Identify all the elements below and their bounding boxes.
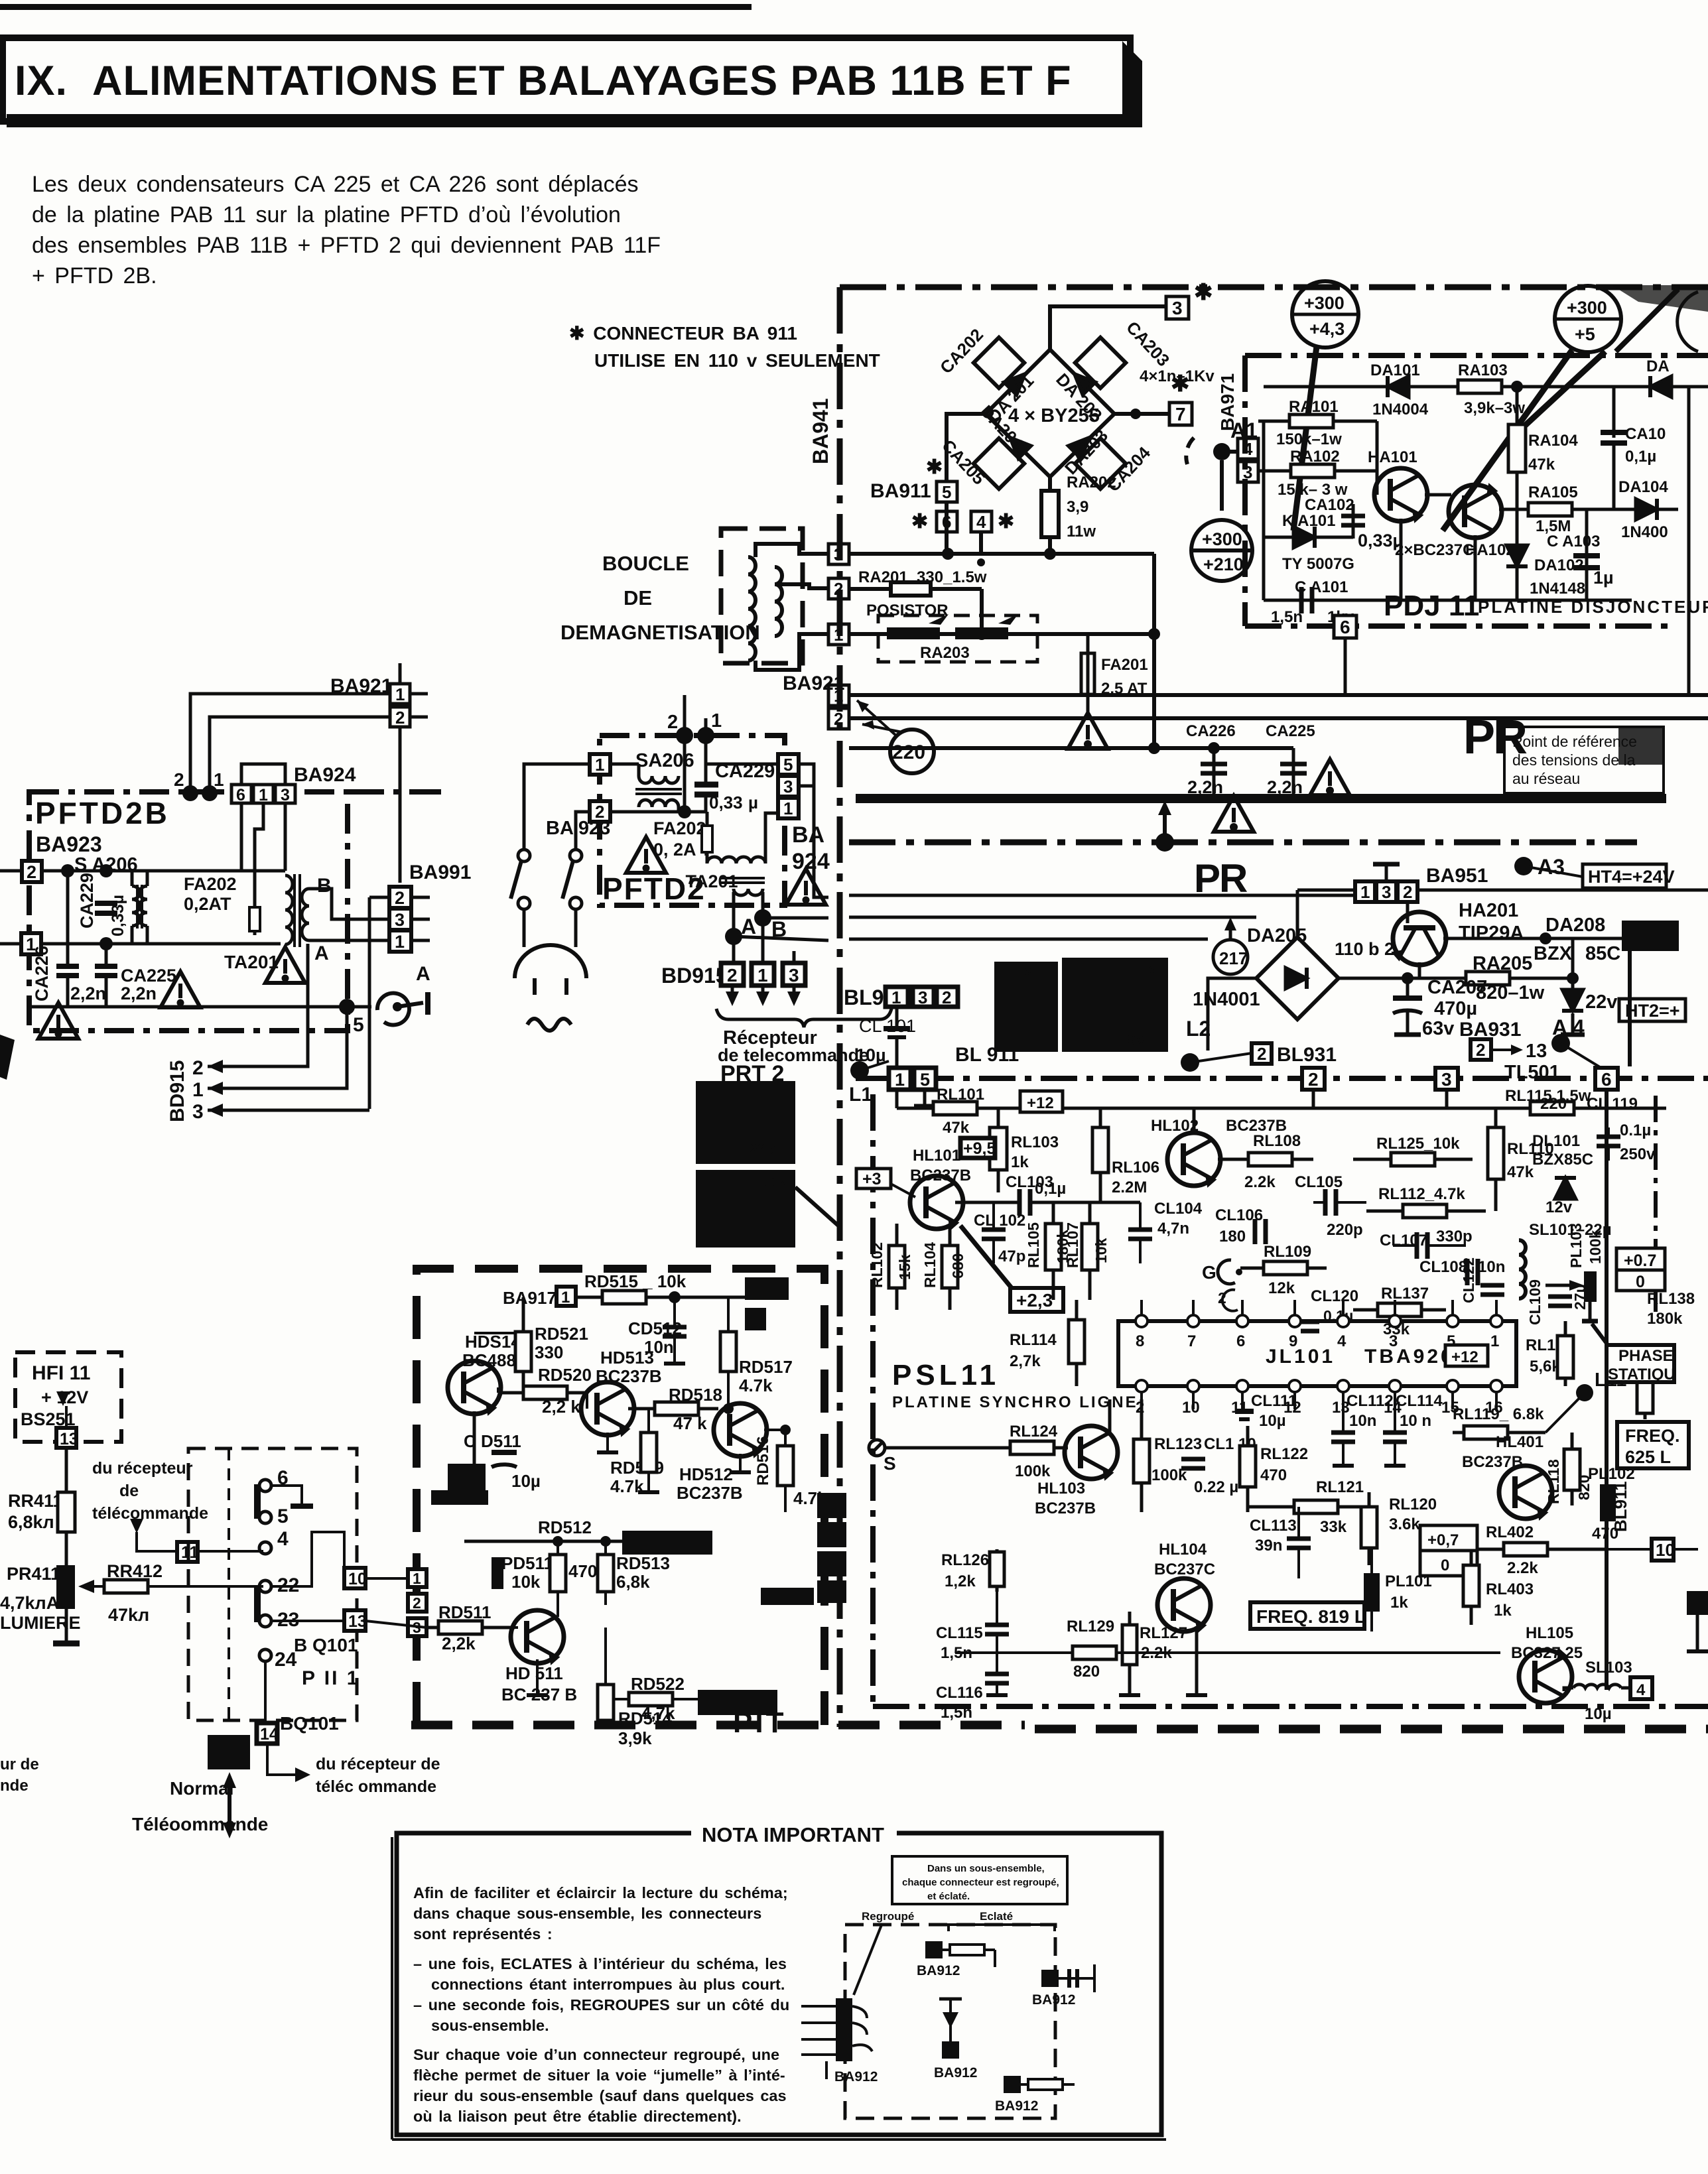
svg-text:1N4148: 1N4148 [1530, 580, 1585, 598]
svg-text:BL 911: BL 911 [955, 1044, 1019, 1066]
svg-text:3: 3 [918, 988, 927, 1007]
connector 4 on bottom [1630, 1677, 1652, 1699]
junction arrow to PR bus [1155, 833, 1174, 852]
svg-text:6: 6 [1236, 1332, 1245, 1350]
connector BA971 3 [1238, 462, 1258, 482]
connector BA991L-3 [389, 909, 411, 930]
svg-text:RL109: RL109 [1264, 1243, 1311, 1261]
svg-text:2: 2 [1476, 1040, 1485, 1060]
IC bottom pins [1136, 1380, 1502, 1392]
wire boucle dashed box [721, 529, 803, 663]
svg-text:47k: 47k [1507, 1163, 1534, 1181]
wire left column vertical [1262, 421, 1266, 600]
svg-text:RA105: RA105 [1528, 483, 1578, 501]
svg-text:A3: A3 [1538, 855, 1565, 879]
svg-text:3: 3 [395, 910, 405, 930]
wire BA921-1 left loop [190, 694, 390, 793]
wire recepteur to box11 [137, 1532, 177, 1551]
svg-text:10n: 10n [1349, 1412, 1376, 1430]
connector 6 on BL911 [1595, 1068, 1618, 1090]
svg-text:4: 4 [1243, 439, 1253, 459]
svg-text:0: 0 [1441, 1557, 1449, 1574]
boucle transformer coil [748, 557, 755, 661]
transistor HA101 [1374, 468, 1427, 521]
warning triangle CA225 [161, 972, 200, 1007]
svg-text:1: 1 [891, 988, 901, 1007]
svg-text:6,8k: 6,8k [616, 1572, 650, 1592]
wire 24 down to 14 [264, 1661, 267, 1723]
svg-text:820: 820 [1073, 1663, 1100, 1681]
wire BD915-3 [208, 1109, 369, 1112]
connector 4 with ground [971, 511, 992, 532]
black blob right edge [1687, 1591, 1708, 1615]
svg-text:2.2k: 2.2k [1507, 1559, 1538, 1577]
wire top rail to BA924-5 [706, 763, 778, 766]
title box bottom shadow [7, 114, 1142, 127]
svg-text:1N400: 1N400 [1621, 523, 1668, 541]
wire switches down to plug [523, 909, 526, 947]
svg-text:+300: +300 [1202, 529, 1242, 549]
wire A net y1518 [29, 1005, 371, 1009]
wire rail y2324 [464, 1540, 622, 1543]
capacitor CA205 tilted box [974, 438, 1024, 489]
svg-text:470: 470 [1260, 1466, 1287, 1484]
svg-text:RD515 _ 10k: RD515 _ 10k [584, 1271, 687, 1291]
connector PFTD2-1 [590, 754, 610, 775]
contact 5 [259, 1511, 271, 1523]
wire secondary B down [761, 892, 765, 918]
wire BA991 stubs right [411, 896, 430, 899]
wire HDS14 emitter down [473, 1411, 476, 1464]
resistor RL101 [933, 1102, 977, 1115]
svg-text:3: 3 [789, 965, 799, 986]
black blob right [1622, 921, 1679, 951]
svg-text:1: 1 [757, 965, 768, 986]
transformer TA201 middle [707, 857, 765, 863]
wire BA991 row3 right [849, 916, 1256, 919]
wire HL103 collector up [1108, 1399, 1112, 1434]
svg-text:L1: L1 [849, 1084, 872, 1106]
svg-text:13: 13 [1526, 1041, 1547, 1062]
wire BA924-6 down [240, 803, 243, 871]
svg-text:150k–1w: 150k–1w [1276, 430, 1342, 448]
svg-text:B Q101: B Q101 [294, 1635, 358, 1655]
connector BA924m-1 [778, 798, 799, 818]
svg-text:du récepteur: du récepteur [92, 1459, 193, 1478]
svg-text:2: 2 [413, 1594, 421, 1612]
svg-text:4: 4 [1337, 1332, 1347, 1350]
svg-text:RA102: RA102 [1290, 448, 1340, 466]
transistor HL101 [910, 1176, 963, 1229]
resistor 470 vertical [557, 1541, 559, 1605]
arrows 220 to connectors [857, 700, 897, 736]
svg-text:2×BC237C: 2×BC237C [1395, 541, 1474, 559]
wire B to BA991-3 [763, 917, 828, 920]
svg-text:CL 119: CL 119 [1587, 1095, 1638, 1113]
svg-text:HFI 11: HFI 11 [32, 1362, 90, 1384]
fuse FA202 [253, 904, 257, 935]
svg-text:2: 2 [395, 888, 405, 908]
svg-text:RL104: RL104 [921, 1242, 939, 1288]
svg-text:des tensions de la: des tensions de la [1512, 751, 1636, 769]
RA203 dashed box [878, 615, 1037, 662]
svg-text:Téléoommande: Téléoommande [132, 1814, 268, 1834]
svg-text:HA101: HA101 [1368, 448, 1417, 466]
svg-text:2,2 k: 2,2 k [542, 1397, 580, 1417]
wire PDJ11 top dashed border [1245, 353, 1708, 358]
posistor RA203 elements [849, 632, 1154, 636]
transistor HL103 [1065, 1426, 1118, 1479]
svg-text:6: 6 [236, 786, 245, 804]
PIT heavy dashed box [417, 1269, 824, 1725]
resistor RA102 [1258, 470, 1377, 473]
svg-text:✱: ✱ [926, 456, 943, 478]
svg-text:12k: 12k [1268, 1279, 1295, 1297]
svg-text:BL931: BL931 [1277, 1044, 1337, 1066]
resistor RL123 vertical [1140, 1399, 1144, 1512]
wire BD915-3 up [793, 951, 796, 968]
svg-text:HL102: HL102 [1151, 1117, 1199, 1135]
wire BA991-2 to left vertical [814, 786, 828, 897]
box +0,7 / 0 [1420, 1525, 1477, 1551]
photo rect receiver bottom [696, 1170, 795, 1247]
svg-text:1k: 1k [1011, 1153, 1029, 1171]
svg-text:RL106: RL106 [1112, 1159, 1159, 1177]
svg-text:1: 1 [1360, 882, 1370, 902]
svg-text:CA225: CA225 [1266, 722, 1315, 740]
svg-text:téléc ommande: téléc ommande [316, 1777, 436, 1796]
svg-text:RL129: RL129 [1067, 1618, 1114, 1635]
wire right branch down to FA201 [1152, 554, 1156, 748]
wire HL102 base left [1100, 1159, 1173, 1160]
wire A to BA991-1 [734, 936, 828, 940]
capacitor CA101 on bottom rail [1299, 587, 1304, 613]
svg-text:4: 4 [976, 512, 986, 532]
warning triangle TA201 [265, 947, 305, 983]
svg-text:connections étant interrompues: connections étant interrompues àu plus c… [431, 1976, 785, 1993]
svg-text:FREQ. 819 L: FREQ. 819 L [1256, 1606, 1366, 1627]
svg-text:330p: 330p [1436, 1228, 1473, 1246]
svg-text:HT2=+: HT2=+ [1625, 1001, 1680, 1021]
svg-text:CL113: CL113 [1250, 1517, 1297, 1535]
circle cut at right edge [1677, 292, 1698, 352]
svg-text:Point de référence: Point de référence [1512, 733, 1637, 750]
wires transistor chain [497, 1387, 499, 1393]
svg-text:2.2M: 2.2M [1112, 1179, 1147, 1196]
wire B down to BD915-1 [761, 918, 765, 968]
svg-text:4,7n: 4,7n [1157, 1220, 1189, 1238]
wires 10/13 right to PIT [365, 1577, 408, 1580]
diode DA101 [1388, 376, 1409, 397]
wire BA924-1 down [255, 803, 263, 904]
svg-text:RD516: RD516 [754, 1436, 772, 1486]
resistor RA105 [1499, 508, 1678, 511]
node 1 junction on top border [697, 727, 714, 744]
svg-text:BA923: BA923 [36, 832, 102, 856]
svg-text:13: 13 [348, 1612, 367, 1631]
wire box2 right [610, 810, 706, 814]
connector 14 [257, 1723, 277, 1744]
capacitor CA207 [1406, 978, 1410, 997]
switch bar 6-5 [254, 1484, 261, 1519]
svg-text:RL102: RL102 [868, 1242, 886, 1288]
wire A1 dot vertical to +300/+210 circle [1220, 460, 1224, 511]
wire 23 right to 13 [271, 1620, 344, 1622]
svg-text:2: 2 [834, 709, 843, 729]
svg-text:7: 7 [1187, 1332, 1196, 1350]
connector BA921-1 [390, 684, 410, 704]
bridge 4xBY255 diamond [986, 350, 1114, 477]
connector BA924-6 [231, 785, 251, 803]
small info box [892, 1856, 1067, 1904]
svg-text:BC327.25: BC327.25 [1511, 1644, 1583, 1662]
svg-text:1: 1 [561, 1289, 570, 1307]
svg-text:PHASE: PHASE [1618, 1347, 1674, 1365]
svg-text:CL114: CL114 [1396, 1392, 1443, 1410]
svg-text:2: 2 [192, 1057, 204, 1079]
resistor RL122 vertical [1246, 1426, 1250, 1512]
wire 5 right [271, 1506, 302, 1517]
HT4 box [1583, 864, 1666, 888]
FREQ 625L box [1617, 1422, 1689, 1468]
svg-text:1: 1 [895, 1070, 905, 1090]
svg-text:1: 1 [259, 786, 268, 804]
svg-text:DA102: DA102 [1534, 556, 1584, 574]
wire main y1423 [41, 942, 281, 946]
capacitor CA204 tilted box [1075, 438, 1126, 489]
svg-text:L1k: L1k [763, 1176, 786, 1190]
svg-text:RL101: RL101 [937, 1086, 984, 1104]
scope photo black rect right [1062, 958, 1168, 1052]
svg-text:10k: 10k [1092, 1238, 1110, 1263]
svg-text:2: 2 [1257, 1044, 1266, 1064]
wire BA921-2 down to BA991 [399, 727, 402, 883]
svg-text:2,2k: 2,2k [442, 1633, 476, 1653]
connector BD915-1 [752, 963, 774, 986]
svg-text:HL103: HL103 [1037, 1480, 1085, 1498]
node B dot [754, 909, 771, 927]
svg-text:2,7k: 2,7k [1010, 1352, 1041, 1370]
svg-text:180: 180 [1219, 1228, 1246, 1246]
arrows down from BD915 [731, 986, 734, 998]
wire HD511 [515, 1626, 518, 1629]
svg-text:1: 1 [192, 1079, 204, 1101]
svg-text:RL118: RL118 [1545, 1459, 1562, 1504]
svg-text:RL137: RL137 [1381, 1285, 1429, 1303]
wire bottom heavy dashed PIT border [411, 1721, 1025, 1730]
node 2 junction on top border [676, 727, 693, 744]
svg-text:sous-ensemble.: sous-ensemble. [431, 2017, 549, 2034]
capacitor CL119 [1607, 1127, 1610, 1135]
wire PR dash-dot line below bus [849, 840, 1637, 846]
svg-text:DA208: DA208 [1545, 915, 1605, 936]
capacitor CA203 tilted box [1075, 338, 1126, 388]
NOTA box frame [397, 1833, 1161, 2135]
svg-text:220: 220 [892, 741, 925, 763]
svg-text:1: 1 [834, 686, 843, 706]
svg-text:9V_L: 9V_L [1128, 1031, 1163, 1048]
svg-text:RD520: RD520 [538, 1365, 592, 1385]
svg-text:Dans un sous-ensemble,: Dans un sous-ensemble, [927, 1863, 1045, 1874]
wire BA991 row1 right [849, 938, 1208, 941]
svg-text:1N4004: 1N4004 [1372, 401, 1429, 418]
wire 14 down to recepteur arrow [267, 1744, 295, 1775]
svg-text:dans chaque sous-ensemble,: dans chaque sous-ensemble, les connecteu… [413, 1905, 761, 1922]
svg-text:13: 13 [60, 1430, 78, 1448]
svg-text:sont représentés :: sont représentés : [413, 1925, 553, 1943]
svg-text:CA226: CA226 [1186, 722, 1236, 740]
svg-text:BC237B: BC237B [1035, 1500, 1096, 1517]
wire BA921 stubs right [410, 692, 428, 696]
svg-text:+0,7: +0,7 [1427, 1531, 1459, 1549]
svg-text:2,5 AT: 2,5 AT [1101, 680, 1148, 698]
node 2 junction on top border [182, 785, 198, 801]
svg-text:BA951: BA951 [1426, 865, 1488, 887]
svg-text:BL911: BL911 [1610, 1481, 1630, 1532]
resistor RL106 vertical [1099, 1108, 1102, 1202]
svg-text:G: G [1202, 1262, 1216, 1283]
node A1 [1213, 443, 1230, 460]
svg-text:BC237B: BC237B [677, 1483, 743, 1503]
ground under 5 [923, 1090, 927, 1106]
BA912 diode [939, 1998, 962, 2001]
svg-text:0,33µ: 0,33µ [1358, 531, 1403, 550]
title box frame [3, 38, 1130, 121]
wire BA923-1 exit left [0, 942, 21, 946]
svg-text:DA104: DA104 [1618, 478, 1668, 496]
svg-text:1: 1 [395, 684, 405, 704]
transformer SA206 middle [639, 764, 679, 783]
svg-text:10µ: 10µ [1259, 1412, 1286, 1430]
capacitor CA226 (right area) [1213, 748, 1216, 799]
svg-text:RL125_10k: RL125_10k [1376, 1135, 1460, 1153]
svg-text:680: 680 [949, 1253, 966, 1279]
black smudge on PR box [1618, 728, 1664, 765]
wire BA951-2 down to HA201 [1406, 902, 1410, 923]
svg-text:de la platine PAB 11 sur la pl: de la platine PAB 11 sur la platine PFTD… [32, 202, 621, 227]
diode DA201 [1004, 368, 1031, 395]
svg-text:0,1µ: 0,1µ [1625, 448, 1656, 466]
svg-text:FA201: FA201 [1101, 656, 1148, 674]
box +12 [1020, 1091, 1063, 1112]
connector BL941-2 [937, 987, 958, 1007]
connector BL931-2 [1252, 1043, 1272, 1064]
connector BA924m-5 [778, 754, 799, 775]
svg-text:NOTA IMPORTANT: NOTA IMPORTANT [702, 1823, 884, 1846]
svg-text:ur de: ur de [0, 1756, 39, 1773]
wire RA201 right down [980, 589, 984, 634]
svg-text:+12: +12 [1451, 1348, 1478, 1366]
svg-text:3.6k: 3.6k [1389, 1515, 1420, 1533]
svg-text:2: 2 [395, 708, 405, 728]
diagonal pointer from photo to BA941 [795, 1187, 840, 1227]
wire 6 down [1605, 1090, 1609, 1690]
svg-text:RL114: RL114 [1010, 1331, 1057, 1349]
svg-text:0,2AT: 0,2AT [184, 894, 231, 914]
wire HL104 emitter down [1195, 1626, 1199, 1695]
svg-text:CA226: CA226 [32, 946, 52, 1001]
svg-text:HD 511: HD 511 [505, 1663, 563, 1683]
svg-text:6,8kл: 6,8kл [8, 1512, 54, 1532]
svg-text:C D511: C D511 [464, 1431, 521, 1451]
svg-text:BZX85C: BZX85C [1532, 1151, 1593, 1169]
svg-text:A: A [314, 942, 329, 964]
svg-text:HL104: HL104 [1159, 1541, 1207, 1559]
svg-text:5: 5 [942, 482, 951, 502]
arrow into pot [78, 1580, 94, 1593]
wire secondary A down [732, 892, 736, 936]
capacitor CA202 tilted box [974, 338, 1024, 388]
svg-text:CL122: CL122 [1460, 1257, 1477, 1303]
svg-text:BC237B: BC237B [910, 1167, 971, 1184]
box +9,5 [960, 1138, 995, 1158]
svg-text:+ PFTD 2B.: + PFTD 2B. [32, 263, 157, 288]
wire 11 to contact 4 [198, 1550, 263, 1553]
svg-text:HD513: HD513 [600, 1348, 654, 1368]
svg-text:HL101: HL101 [913, 1147, 960, 1165]
svg-text:RL121: RL121 [1316, 1478, 1364, 1496]
connector BA991L-2 [389, 887, 411, 908]
svg-text:10: 10 [1182, 1399, 1200, 1417]
svg-text:CL 102: CL 102 [974, 1212, 1025, 1230]
svg-text:1: 1 [711, 710, 722, 732]
wire RA205 to zener [1545, 977, 1573, 980]
resistor RA202 vertical [1048, 477, 1052, 556]
svg-text:1N4001: 1N4001 [1193, 989, 1260, 1010]
wire BA991-2 from vertical [369, 896, 389, 899]
svg-text:RD512: RD512 [538, 1517, 592, 1537]
svg-text:P II 1: P II 1 [302, 1667, 360, 1689]
connector BA923-2 [22, 861, 42, 882]
top rule line [0, 4, 752, 10]
svg-text:217: 217 [1219, 948, 1248, 968]
wire KA101 row [1264, 536, 1353, 539]
svg-text:DEMAGNETISATION: DEMAGNETISATION [560, 621, 760, 644]
svg-text:S: S [884, 1453, 896, 1474]
svg-text:✱: ✱ [1194, 280, 1213, 305]
connector BL911-5 [914, 1068, 936, 1090]
wire TA201 A to BA991-1 [309, 939, 389, 942]
connector BA923-1 [21, 933, 41, 954]
wire bottom rail [1264, 599, 1632, 602]
wire from 1 up loop to BA921-2 line [704, 718, 708, 735]
svg-text:– une fois, ECLATES à l’intér: – une fois, ECLATES à l’intérieur du sch… [413, 1955, 787, 1972]
svg-text:1,5n: 1,5n [941, 1704, 972, 1722]
svg-text:PFTD2B: PFTD2B [35, 796, 170, 830]
capacitor CA225 [1292, 748, 1295, 799]
svg-text:CL105: CL105 [1295, 1173, 1343, 1191]
wire solid 1342 right portion [1297, 889, 1708, 892]
wire BA923-2 exit left [0, 869, 22, 873]
svg-text:RA205: RA205 [1473, 953, 1532, 974]
wire 6 loop to ground [271, 1486, 302, 1506]
black blob top right [745, 1277, 789, 1300]
svg-text:4.7k: 4.7k [739, 1375, 773, 1395]
wire 1128 line [849, 746, 1293, 750]
connector PFTD2-2 [590, 801, 610, 822]
svg-text:BD915: BD915 [661, 964, 728, 988]
svg-text:1k: 1k [1390, 1594, 1408, 1612]
svg-text:220p: 220p [1327, 1221, 1363, 1239]
svg-text:2: 2 [27, 862, 36, 882]
wire 2 down [683, 735, 687, 812]
svg-text:PD511: PD511 [501, 1553, 553, 1573]
FREQ.819L box [1250, 1602, 1364, 1629]
svg-text:de: de [119, 1482, 139, 1500]
wire PSL11 bottom dash-dot border [873, 1704, 1708, 1709]
svg-text:nde: nde [0, 1777, 29, 1795]
diode DA203 [1069, 432, 1095, 458]
